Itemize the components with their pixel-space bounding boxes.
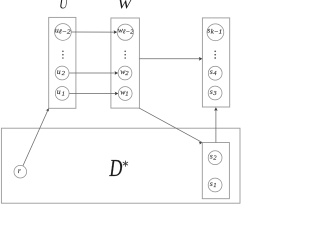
svg-text:3: 3: [212, 90, 217, 97]
svg-text:U: U: [59, 0, 69, 12]
svg-text:D: D: [109, 156, 123, 182]
svg-text:1: 1: [62, 90, 65, 97]
svg-text:ℓ−2: ℓ−2: [123, 29, 134, 36]
svg-text:W: W: [118, 0, 134, 12]
svg-text:1: 1: [213, 182, 216, 189]
svg-text:u: u: [57, 87, 61, 96]
svg-text:ℓ−2: ℓ−2: [59, 28, 71, 35]
svg-text:k−1: k−1: [211, 29, 223, 36]
svg-text:1: 1: [125, 90, 128, 97]
svg-text:u: u: [57, 67, 61, 76]
